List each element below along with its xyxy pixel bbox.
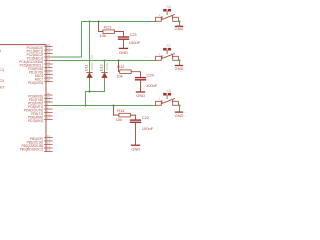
diode D11 <box>87 73 93 78</box>
svg-text:D12: D12 <box>100 64 104 71</box>
node junction diode bus <box>88 90 90 92</box>
svg-text:PB3(MOSI/OC2): PB3(MOSI/OC2) <box>20 148 43 152</box>
resistor R12 right lead to C20 <box>131 72 140 77</box>
node junction net2-diode D12 <box>103 59 105 61</box>
svg-text:S6: S6 <box>166 89 171 93</box>
wire diode D11 top lead <box>89 22 91 73</box>
wire S8 to ground <box>178 22 179 26</box>
svg-text:100nF: 100nF <box>129 40 141 45</box>
node junction net2-R12 <box>117 59 119 61</box>
switch S6 <box>156 93 179 105</box>
resistor R12 <box>120 70 132 74</box>
node junction net1-diode D11 <box>88 20 90 22</box>
svg-text:16: 16 <box>47 148 51 152</box>
svg-text:1: 1 <box>159 13 161 17</box>
svg-text:GND: GND <box>131 147 140 152</box>
svg-text:PD7(AIN1): PD7(AIN1) <box>28 119 43 123</box>
node S7 pin connection <box>178 59 180 61</box>
IC U1 right-side pin stubs run 3 <box>45 138 53 152</box>
svg-text:10k: 10k <box>116 74 122 79</box>
ground GND at S7 <box>176 65 183 67</box>
svg-text:C20: C20 <box>147 72 155 77</box>
wire net1 vertical riser <box>81 22 83 58</box>
svg-text:1: 1 <box>159 52 161 56</box>
svg-text:D11: D11 <box>92 54 94 59</box>
svg-text:S8: S8 <box>166 5 171 9</box>
diode D12 <box>102 73 108 78</box>
wire net3 from PD3 pin to S6 <box>52 105 155 107</box>
node junction net3-R14 <box>112 104 114 106</box>
svg-text:32: 32 <box>47 78 51 82</box>
svg-text:100nF: 100nF <box>142 126 154 131</box>
resistor R13 <box>103 30 115 34</box>
capacitor C20 bottom lead <box>140 81 142 92</box>
resistor R13 right lead to C21 <box>115 32 124 37</box>
switch S8 <box>156 9 179 21</box>
svg-text:GND: GND <box>136 93 145 98</box>
svg-text:GND: GND <box>119 50 128 55</box>
svg-text:GND: GND <box>175 66 184 71</box>
node junction net1-R13 <box>97 20 99 22</box>
IC U1 right-side pin stubs run 1 <box>45 47 53 82</box>
svg-text:D11: D11 <box>85 65 89 71</box>
IC U1 right-side pin stubs run 2 <box>45 95 53 120</box>
svg-text:TOSC2): TOSC2) <box>0 79 4 83</box>
svg-text:RESET: RESET <box>0 86 5 90</box>
wire diode bottom bus <box>86 78 105 106</box>
IC U1 ATmega8 body outline <box>0 45 46 152</box>
svg-text:PD2(INT0): PD2(INT0) <box>28 81 43 85</box>
resistor R13 lead from net1 <box>99 22 104 32</box>
ground GND under C21 <box>120 47 128 49</box>
svg-text:R12: R12 <box>117 64 125 69</box>
svg-text:1: 1 <box>159 97 161 101</box>
resistor R14 lead from net3 <box>114 106 119 115</box>
resistor R14 right lead to C22 <box>130 115 135 119</box>
capacitor C22 <box>131 120 141 122</box>
node S8 pin connection <box>178 20 180 22</box>
wire S7 to ground <box>178 61 179 65</box>
svg-text:C22: C22 <box>142 115 150 120</box>
capacitor C20 <box>136 78 146 80</box>
svg-text:C21: C21 <box>130 32 138 37</box>
resistor R12 lead from net2 <box>119 61 120 72</box>
wire net1 top horizontal to S8 <box>82 21 156 23</box>
svg-text:S7: S7 <box>166 44 171 48</box>
ground GND at S6 <box>176 111 183 113</box>
capacitor C21 bottom lead <box>123 40 125 48</box>
capacitor C21 <box>119 37 129 39</box>
node S6 pin connection <box>178 104 180 106</box>
ground GND under C20 <box>137 91 145 93</box>
svg-text:1N4148: 1N4148 <box>107 62 109 71</box>
capacitor C22 bottom lead <box>135 123 137 145</box>
svg-text:10k: 10k <box>100 33 106 38</box>
svg-text:R13: R13 <box>104 24 112 29</box>
wire diode D12 top lead <box>104 61 106 73</box>
resistor R14 <box>119 113 130 117</box>
ground GND under C22 <box>132 144 140 146</box>
svg-text:1N4148: 1N4148 <box>92 62 94 71</box>
svg-text:11: 11 <box>47 116 50 120</box>
node junction net3-diode bus <box>84 104 86 106</box>
wire S6 to ground <box>178 106 179 112</box>
svg-text:R14: R14 <box>117 108 125 113</box>
wire net1 from PC3 pin to corner <box>52 56 81 58</box>
svg-text:10k: 10k <box>116 117 122 122</box>
ground GND at S8 <box>176 25 183 27</box>
svg-text:GND: GND <box>175 26 184 31</box>
svg-text:TOSC1): TOSC1) <box>0 68 4 72</box>
svg-text:100nF: 100nF <box>146 83 158 88</box>
svg-text:GND: GND <box>175 113 184 118</box>
wire net2 from PC4 pin to S7 <box>52 60 155 62</box>
svg-text:1: 1 <box>0 49 2 53</box>
switch S7 <box>156 48 179 60</box>
